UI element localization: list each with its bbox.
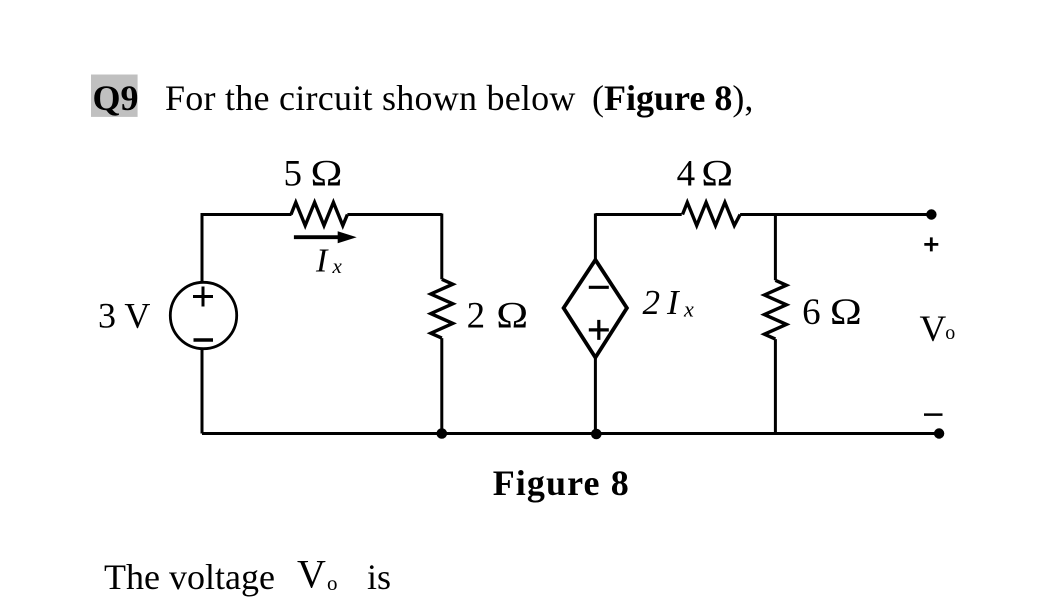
svg-text:V: V: [920, 309, 947, 350]
svg-text:o: o: [945, 322, 955, 344]
node at R2 bottom: [437, 428, 448, 439]
resistor R3 4 ohm zigzag: [683, 202, 741, 225]
svg-text:o: o: [327, 571, 338, 595]
dependent source minus sign: [589, 286, 609, 289]
wire dependent source top lead: [594, 214, 597, 261]
wire top left segment: [201, 213, 292, 216]
node at dependent source bottom: [591, 429, 602, 440]
current arrow Ix head: [338, 231, 357, 243]
resistor R1 5 ohm zigzag: [291, 202, 347, 225]
svg-text:2: 2: [643, 283, 661, 322]
wire top right segment: [740, 213, 931, 216]
svg-text:3 V: 3 V: [98, 296, 150, 336]
voltage source V1 minus sign: [194, 338, 214, 341]
svg-text:Ω: Ω: [311, 152, 343, 194]
node output bottom terminal: [934, 428, 944, 438]
resistor R2 2 ohm zigzag: [431, 279, 453, 338]
svg-text:is: is: [367, 557, 391, 597]
wire top middle segment: [595, 213, 681, 216]
dependent source plus sign: [589, 320, 609, 340]
wire dependent source bottom lead: [594, 357, 597, 434]
wire between R1 and node A: [347, 213, 441, 216]
svg-text:(Figure 8),: (Figure 8),: [592, 78, 753, 118]
svg-text:The voltage: The voltage: [104, 557, 275, 597]
resistor R4 6 ohm zigzag: [764, 280, 786, 339]
svg-text:2: 2: [467, 295, 486, 336]
svg-text:I: I: [315, 243, 329, 280]
svg-text:Ω: Ω: [496, 294, 528, 336]
wire R4 top lead: [774, 214, 777, 281]
voltage source V1 circle: [170, 282, 236, 348]
svg-text:For the circuit shown below: For the circuit shown below: [165, 78, 576, 118]
wire bottom rail: [202, 432, 939, 435]
question label Q9 highlight: [91, 75, 138, 117]
current arrow Ix: [294, 235, 339, 239]
svg-text:x: x: [683, 297, 694, 322]
svg-text:V: V: [297, 552, 326, 597]
label output plus: [924, 237, 938, 251]
svg-text:Figure 8: Figure 8: [493, 463, 630, 503]
svg-text:Ω: Ω: [830, 291, 862, 333]
svg-text:6: 6: [802, 292, 821, 333]
wire R2 top lead: [440, 214, 443, 280]
label output minus: [924, 413, 943, 416]
svg-text:x: x: [332, 254, 343, 278]
svg-text:Q9: Q9: [93, 78, 139, 118]
voltage source V1 plus sign: [193, 287, 213, 307]
node output top terminal: [926, 209, 936, 219]
wire left vertical bottom: [201, 349, 204, 434]
svg-text:4: 4: [677, 154, 696, 195]
svg-text:5: 5: [284, 154, 303, 195]
svg-text:Ω: Ω: [701, 152, 733, 194]
dependent source diamond: [564, 260, 627, 358]
wire R4 bottom lead: [774, 339, 777, 433]
wire left vertical top: [201, 214, 204, 284]
wire R2 bottom lead: [440, 338, 443, 433]
